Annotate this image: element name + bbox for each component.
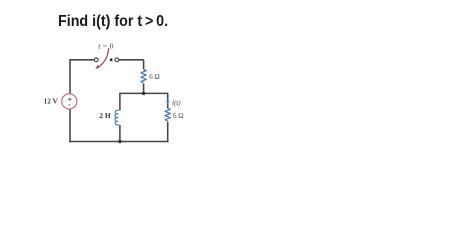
wire bottom horizontal [69, 141, 168, 143]
wire inductor branch bottom lead [119, 125, 121, 142]
wire inductor branch top lead [119, 93, 121, 111]
wire left rail lower [69, 109, 71, 142]
wire top-right horizontal (right of switch) [119, 59, 144, 61]
svg-text:t = 0: t = 0 [98, 42, 114, 51]
node junction dot bottom (inductor branch) [118, 140, 121, 143]
svg-text:6 Ω: 6 Ω [173, 112, 183, 120]
voltage source V1 circle [62, 94, 77, 109]
title text [58, 13, 168, 31]
resistor R2 6ohm (right, vertical, blue) [165, 108, 170, 121]
wire top-left horizontal (left of switch) [70, 59, 94, 61]
inductor L1 2H (blue coil) [115, 110, 120, 125]
svg-text:i(t): i(t) [172, 99, 181, 107]
wire right 6ohm branch bottom lead [167, 122, 169, 143]
voltage source minus sign [68, 104, 71, 106]
wire 6ohm bottom lead to junction [143, 84, 145, 95]
switch right terminal [115, 58, 119, 62]
svg-text:2 H: 2 H [99, 111, 111, 120]
current arrow i(t) (blue, pointing down) [167, 100, 169, 104]
switch moving contact dot [110, 58, 113, 61]
resistor R1 6ohm (top, vertical, blue) [141, 70, 146, 83]
switch opening arrow (dark red arc) [100, 48, 109, 66]
voltage source plus sign [68, 98, 72, 102]
wire right branch upper (6ohm top lead) [143, 60, 145, 70]
node junction dot mid (under first 6ohm) [142, 92, 145, 95]
svg-text:6 Ω: 6 Ω [149, 73, 159, 81]
wire left rail upper [69, 59, 71, 93]
wire middle horizontal [120, 92, 168, 94]
wire right 6ohm branch top lead [167, 93, 169, 109]
svg-text:12 V: 12 V [44, 97, 59, 105]
switch left terminal [94, 58, 98, 62]
